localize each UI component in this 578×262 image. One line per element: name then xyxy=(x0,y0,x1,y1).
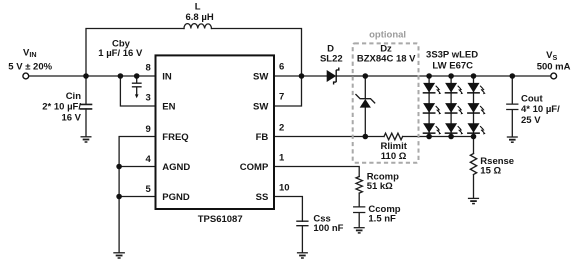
svg-text:25 V: 25 V xyxy=(521,115,541,126)
capacitor Cin vertical leads xyxy=(85,76,87,136)
capacitor Cout leads and plates xyxy=(507,76,518,137)
LED D3 xyxy=(467,83,486,94)
svg-text:8: 8 xyxy=(146,63,151,74)
svg-text:500 mA: 500 mA xyxy=(537,61,571,72)
svg-text:1: 1 xyxy=(279,152,285,163)
svg-text:TPS61087: TPS61087 xyxy=(198,214,243,225)
LED D5 xyxy=(445,103,464,114)
capacitor Ccomp leads and plates xyxy=(354,193,365,227)
LED D2 xyxy=(445,83,464,94)
svg-text:51 kΩ: 51 kΩ xyxy=(367,181,393,192)
junction: SW node xyxy=(299,73,305,79)
LED D9 xyxy=(467,123,486,134)
LED D1 xyxy=(423,83,442,94)
svg-text:PGND: PGND xyxy=(162,192,190,203)
svg-text:AGND: AGND xyxy=(162,162,190,173)
svg-text:L: L xyxy=(195,2,201,13)
LED D4 xyxy=(423,103,442,114)
inductor L xyxy=(184,24,212,29)
wire: EN tie to VIN xyxy=(120,76,155,106)
svg-text:optional: optional xyxy=(369,29,406,40)
ground: Cin xyxy=(81,137,92,142)
junction: LED anode col2 xyxy=(448,73,454,79)
wire: diode cathode to VS rail xyxy=(337,75,551,77)
capacitor Css plates and lead xyxy=(297,221,308,252)
junction: EN tap xyxy=(118,73,124,79)
LED D7 xyxy=(423,123,442,134)
diode D SL22 (schottky) xyxy=(327,68,339,85)
junction: LED anode col1 xyxy=(426,73,432,79)
svg-text:EN: EN xyxy=(162,102,175,113)
svg-text:3: 3 xyxy=(146,93,151,104)
svg-text:COMP: COMP xyxy=(240,162,269,173)
ground: Rsense xyxy=(468,198,479,203)
svg-text:BZX84C 18 V: BZX84C 18 V xyxy=(357,53,416,64)
ground: Cout xyxy=(507,137,518,142)
wire: Rlimit to LED cathode rail xyxy=(403,136,474,138)
svg-text:2: 2 xyxy=(279,122,284,133)
svg-text:Cout: Cout xyxy=(521,93,543,104)
svg-text:16 V: 16 V xyxy=(61,112,81,123)
svg-text:IN: IN xyxy=(162,72,172,83)
LED D8 xyxy=(445,123,464,134)
LED D6 xyxy=(467,103,486,114)
junction: VIN/Cin/L tap xyxy=(83,73,89,79)
capacitor Cby ground arrow xyxy=(135,94,139,98)
wire: SW pin 6 stub to diode anode xyxy=(275,75,327,77)
junction: LED cathode col1 xyxy=(426,134,432,140)
svg-text:FB: FB xyxy=(256,132,269,143)
resistor Rsense leads xyxy=(473,137,475,198)
junction: AGND bus xyxy=(116,164,122,170)
terminal: VIN input xyxy=(23,73,29,79)
junction: LED anode col3 xyxy=(471,73,477,79)
ground: Css xyxy=(297,253,308,258)
wire: COMP to Rcomp xyxy=(275,167,360,177)
resistor Rcomp xyxy=(356,177,362,194)
wire: LED string column 3 xyxy=(473,76,475,137)
svg-text:110 Ω: 110 Ω xyxy=(381,151,407,162)
zener Dz leads xyxy=(364,76,366,137)
svg-text:SW: SW xyxy=(253,72,268,83)
junction: Cout tap xyxy=(510,73,516,79)
svg-text:5: 5 xyxy=(146,184,152,195)
resistor Rsense xyxy=(470,154,476,175)
svg-text:5 V ± 20%: 5 V ± 20% xyxy=(8,62,52,73)
svg-text:3S3P wLED: 3S3P wLED xyxy=(426,50,478,61)
junction: Dz bottom / FB xyxy=(363,134,369,140)
ground: analog/power GND bus xyxy=(113,253,125,258)
capacitor Cby lead and plates xyxy=(133,76,142,95)
svg-text:15 Ω: 15 Ω xyxy=(480,166,501,177)
svg-text:SL22: SL22 xyxy=(320,53,343,64)
svg-text:7: 7 xyxy=(279,91,284,102)
svg-text:SW: SW xyxy=(253,102,268,113)
junction: PGND bus xyxy=(116,194,122,200)
resistor Rlimit xyxy=(384,133,403,140)
svg-text:4: 4 xyxy=(146,154,152,165)
wire: FB line from pin 2 to Rlimit xyxy=(275,136,385,138)
terminal: VS output xyxy=(551,73,557,79)
capacitor Cin plates xyxy=(81,104,92,109)
wire: FREQ/AGND/PGND ground bus xyxy=(119,137,155,253)
svg-text:SS: SS xyxy=(256,192,269,203)
svg-text:1.5 nF: 1.5 nF xyxy=(368,213,396,224)
svg-text:LW E67C: LW E67C xyxy=(432,61,473,72)
junction: LED cathode col2 xyxy=(448,134,454,140)
wire: SW pin 7 stub joining SW node xyxy=(275,76,302,106)
zener Dz cathode bar with tails xyxy=(356,95,375,103)
svg-text:6.8 µH: 6.8 µH xyxy=(186,12,214,23)
IC U1 TPS61087 body xyxy=(156,55,275,209)
optional dashed enclosure xyxy=(353,43,419,162)
wire: boost loop up/over through L to SW node xyxy=(86,29,302,77)
junction: LED cathode col3 xyxy=(471,134,477,140)
svg-text:Cin: Cin xyxy=(66,91,82,102)
junction: Dz top xyxy=(363,73,369,79)
junction: Cby tap xyxy=(134,73,140,79)
ground: Ccomp xyxy=(354,228,365,233)
svg-text:100 nF: 100 nF xyxy=(313,223,343,234)
svg-text:10: 10 xyxy=(279,182,290,193)
wire: VIN rail to IC pin 8 xyxy=(29,75,155,77)
zener Dz BZX84C triangle xyxy=(360,99,371,108)
svg-text:1 µF/ 16 V: 1 µF/ 16 V xyxy=(98,48,143,59)
svg-text:9: 9 xyxy=(146,124,151,135)
svg-text:FREQ: FREQ xyxy=(162,132,188,143)
svg-text:4* 10 µF/: 4* 10 µF/ xyxy=(521,104,560,115)
wire: LED string column 2 xyxy=(450,76,452,137)
wire: LED string column 1 xyxy=(428,76,430,137)
svg-text:6: 6 xyxy=(279,61,284,72)
wire: SS to Css xyxy=(275,197,303,222)
svg-text:2* 10 µF/: 2* 10 µF/ xyxy=(42,102,81,113)
